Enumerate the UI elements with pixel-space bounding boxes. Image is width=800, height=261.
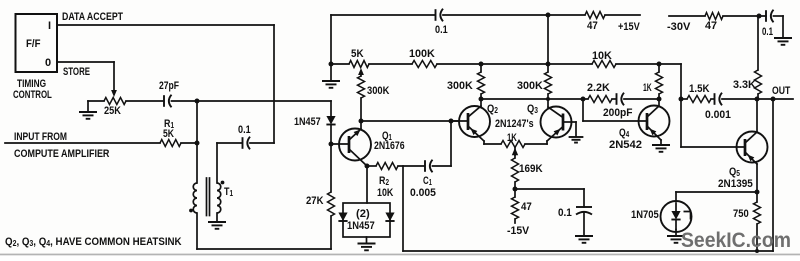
svg-text:0.001: 0.001 [705, 109, 731, 121]
svg-text:2N1247's: 2N1247's [495, 118, 534, 130]
svg-text:10K: 10K [592, 50, 612, 62]
svg-text:47: 47 [705, 20, 717, 32]
svg-text:5K: 5K [351, 49, 364, 61]
svg-text:300K: 300K [367, 85, 390, 97]
svg-text:SeekIC.com: SeekIC.com [681, 229, 791, 252]
svg-text:0: 0 [45, 57, 51, 69]
svg-text:750: 750 [733, 208, 749, 220]
svg-text:-15V: -15V [507, 225, 530, 237]
svg-text:F/F: F/F [26, 38, 40, 50]
svg-text:-30V: -30V [667, 21, 691, 33]
svg-text:1.5K: 1.5K [689, 84, 710, 96]
svg-text:47: 47 [587, 21, 598, 33]
svg-text:27pF: 27pF [159, 80, 179, 92]
svg-text:DATA ACCEPT: DATA ACCEPT [62, 11, 123, 23]
svg-text:Q3: Q3 [527, 103, 538, 115]
svg-text:1K: 1K [507, 132, 517, 145]
svg-text:0.1: 0.1 [558, 208, 572, 220]
svg-text:0.1: 0.1 [762, 26, 774, 39]
svg-text:0.1: 0.1 [238, 124, 251, 136]
svg-text:100K: 100K [409, 48, 435, 60]
svg-text:3.3K: 3.3K [733, 79, 756, 91]
svg-text:169K: 169K [519, 164, 543, 176]
svg-text:0.1: 0.1 [435, 24, 448, 36]
svg-text:CONTROL: CONTROL [13, 89, 52, 102]
svg-text:COMPUTE AMPLIFIER: COMPUTE AMPLIFIER [14, 148, 110, 160]
svg-text:2N1395: 2N1395 [718, 179, 753, 191]
svg-text:300K: 300K [447, 80, 473, 92]
svg-text:1N457: 1N457 [294, 116, 321, 128]
svg-text:1K: 1K [643, 81, 652, 93]
svg-text:0.005: 0.005 [410, 187, 436, 199]
svg-text:(2): (2) [356, 208, 370, 220]
svg-text:2N542: 2N542 [609, 139, 642, 151]
svg-text:1N705: 1N705 [631, 209, 659, 221]
svg-text:1N457: 1N457 [347, 220, 375, 232]
svg-text:Q2, Q3, Q4, HAVE COMMON HEATSI: Q2, Q3, Q4, HAVE COMMON HEATSINK [5, 237, 182, 249]
svg-text:STORE: STORE [63, 66, 90, 79]
svg-text:200pF: 200pF [603, 107, 633, 119]
svg-text:25K: 25K [104, 105, 121, 117]
svg-text:47: 47 [521, 202, 532, 214]
svg-text:27K: 27K [306, 195, 324, 207]
svg-text:300K: 300K [517, 80, 543, 92]
svg-text:Q5: Q5 [729, 166, 740, 178]
svg-text:INPUT FROM: INPUT FROM [14, 131, 67, 143]
svg-text:+15V: +15V [618, 21, 640, 33]
svg-text:OUT: OUT [772, 85, 790, 97]
svg-text:Q2: Q2 [487, 103, 498, 115]
svg-text:5K: 5K [163, 128, 175, 140]
svg-text:10K: 10K [377, 187, 394, 199]
svg-text:2N1676: 2N1676 [374, 140, 405, 152]
svg-text:I: I [48, 20, 51, 32]
svg-text:2.2K: 2.2K [587, 82, 610, 94]
